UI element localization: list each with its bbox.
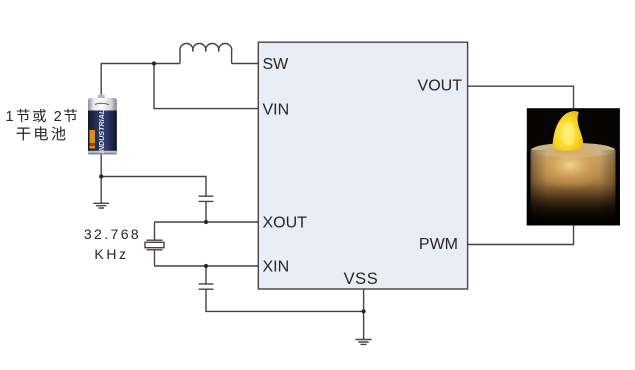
svg-text:INDUSTRIAL: INDUSTRIAL [97,110,106,154]
VSS junction [362,309,366,313]
wire inductor to SW pin [232,63,259,65]
svg-text:PWM: PWM [419,236,458,253]
ground VSS [356,340,372,345]
battery BT1 [88,95,117,155]
wire battery plus to node A [101,64,154,97]
wire C1 to XOUT node [205,201,207,222]
candle photo [527,108,620,225]
capacitor C2 [199,284,214,289]
wire C2 to VSS net [206,289,364,311]
svg-text:XIN: XIN [263,259,290,276]
label 1节或 2节 干电池 [6,109,78,141]
crystal Y1 body [145,242,164,247]
wire crystal top branch [154,222,156,240]
wire XOUT net [155,221,259,223]
svg-text:1: 1 [6,109,14,125]
svg-text:XOUT: XOUT [263,215,308,232]
XOUT junction [204,220,208,224]
svg-text:KHz: KHz [94,246,128,262]
wire XIN net [155,265,259,267]
IC U1 [258,42,467,289]
crystal Y1 [147,240,163,250]
inductor L1 [180,44,232,64]
svg-text:VSS: VSS [344,270,379,288]
wire battery minus node to capacitor C1 [101,177,206,197]
wire crystal bottom branch [154,250,156,266]
wire VSS pin to ground [363,289,365,340]
svg-text:VOUT: VOUT [418,78,463,95]
wire XIN node to capacitor C2 [205,266,207,284]
svg-text:2: 2 [54,109,62,125]
ground battery [93,203,109,208]
svg-text:SW: SW [263,56,290,73]
svg-text:32.768: 32.768 [84,226,141,242]
battery minus junction [99,174,103,178]
XIN junction [204,264,208,268]
svg-text:VIN: VIN [263,101,290,118]
wire VOUT to candle [468,86,574,108]
wire node A to VIN pin [154,64,258,109]
wire node A to inductor [154,63,180,65]
capacitor C1 [199,196,214,201]
wire candle to PWM [468,225,574,244]
node A junction [152,61,156,65]
wire battery minus to ground [100,155,102,204]
